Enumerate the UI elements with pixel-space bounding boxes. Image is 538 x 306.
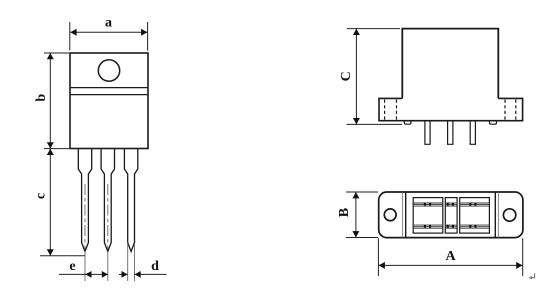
svg-text:c: c	[34, 193, 49, 199]
svg-text:C: C	[339, 71, 354, 81]
svg-text:B: B	[337, 208, 352, 217]
svg-text:e: e	[69, 259, 75, 274]
svg-text:b: b	[34, 94, 49, 102]
svg-text:a: a	[105, 16, 112, 31]
svg-text:A: A	[445, 249, 456, 264]
svg-text:d: d	[151, 259, 159, 274]
